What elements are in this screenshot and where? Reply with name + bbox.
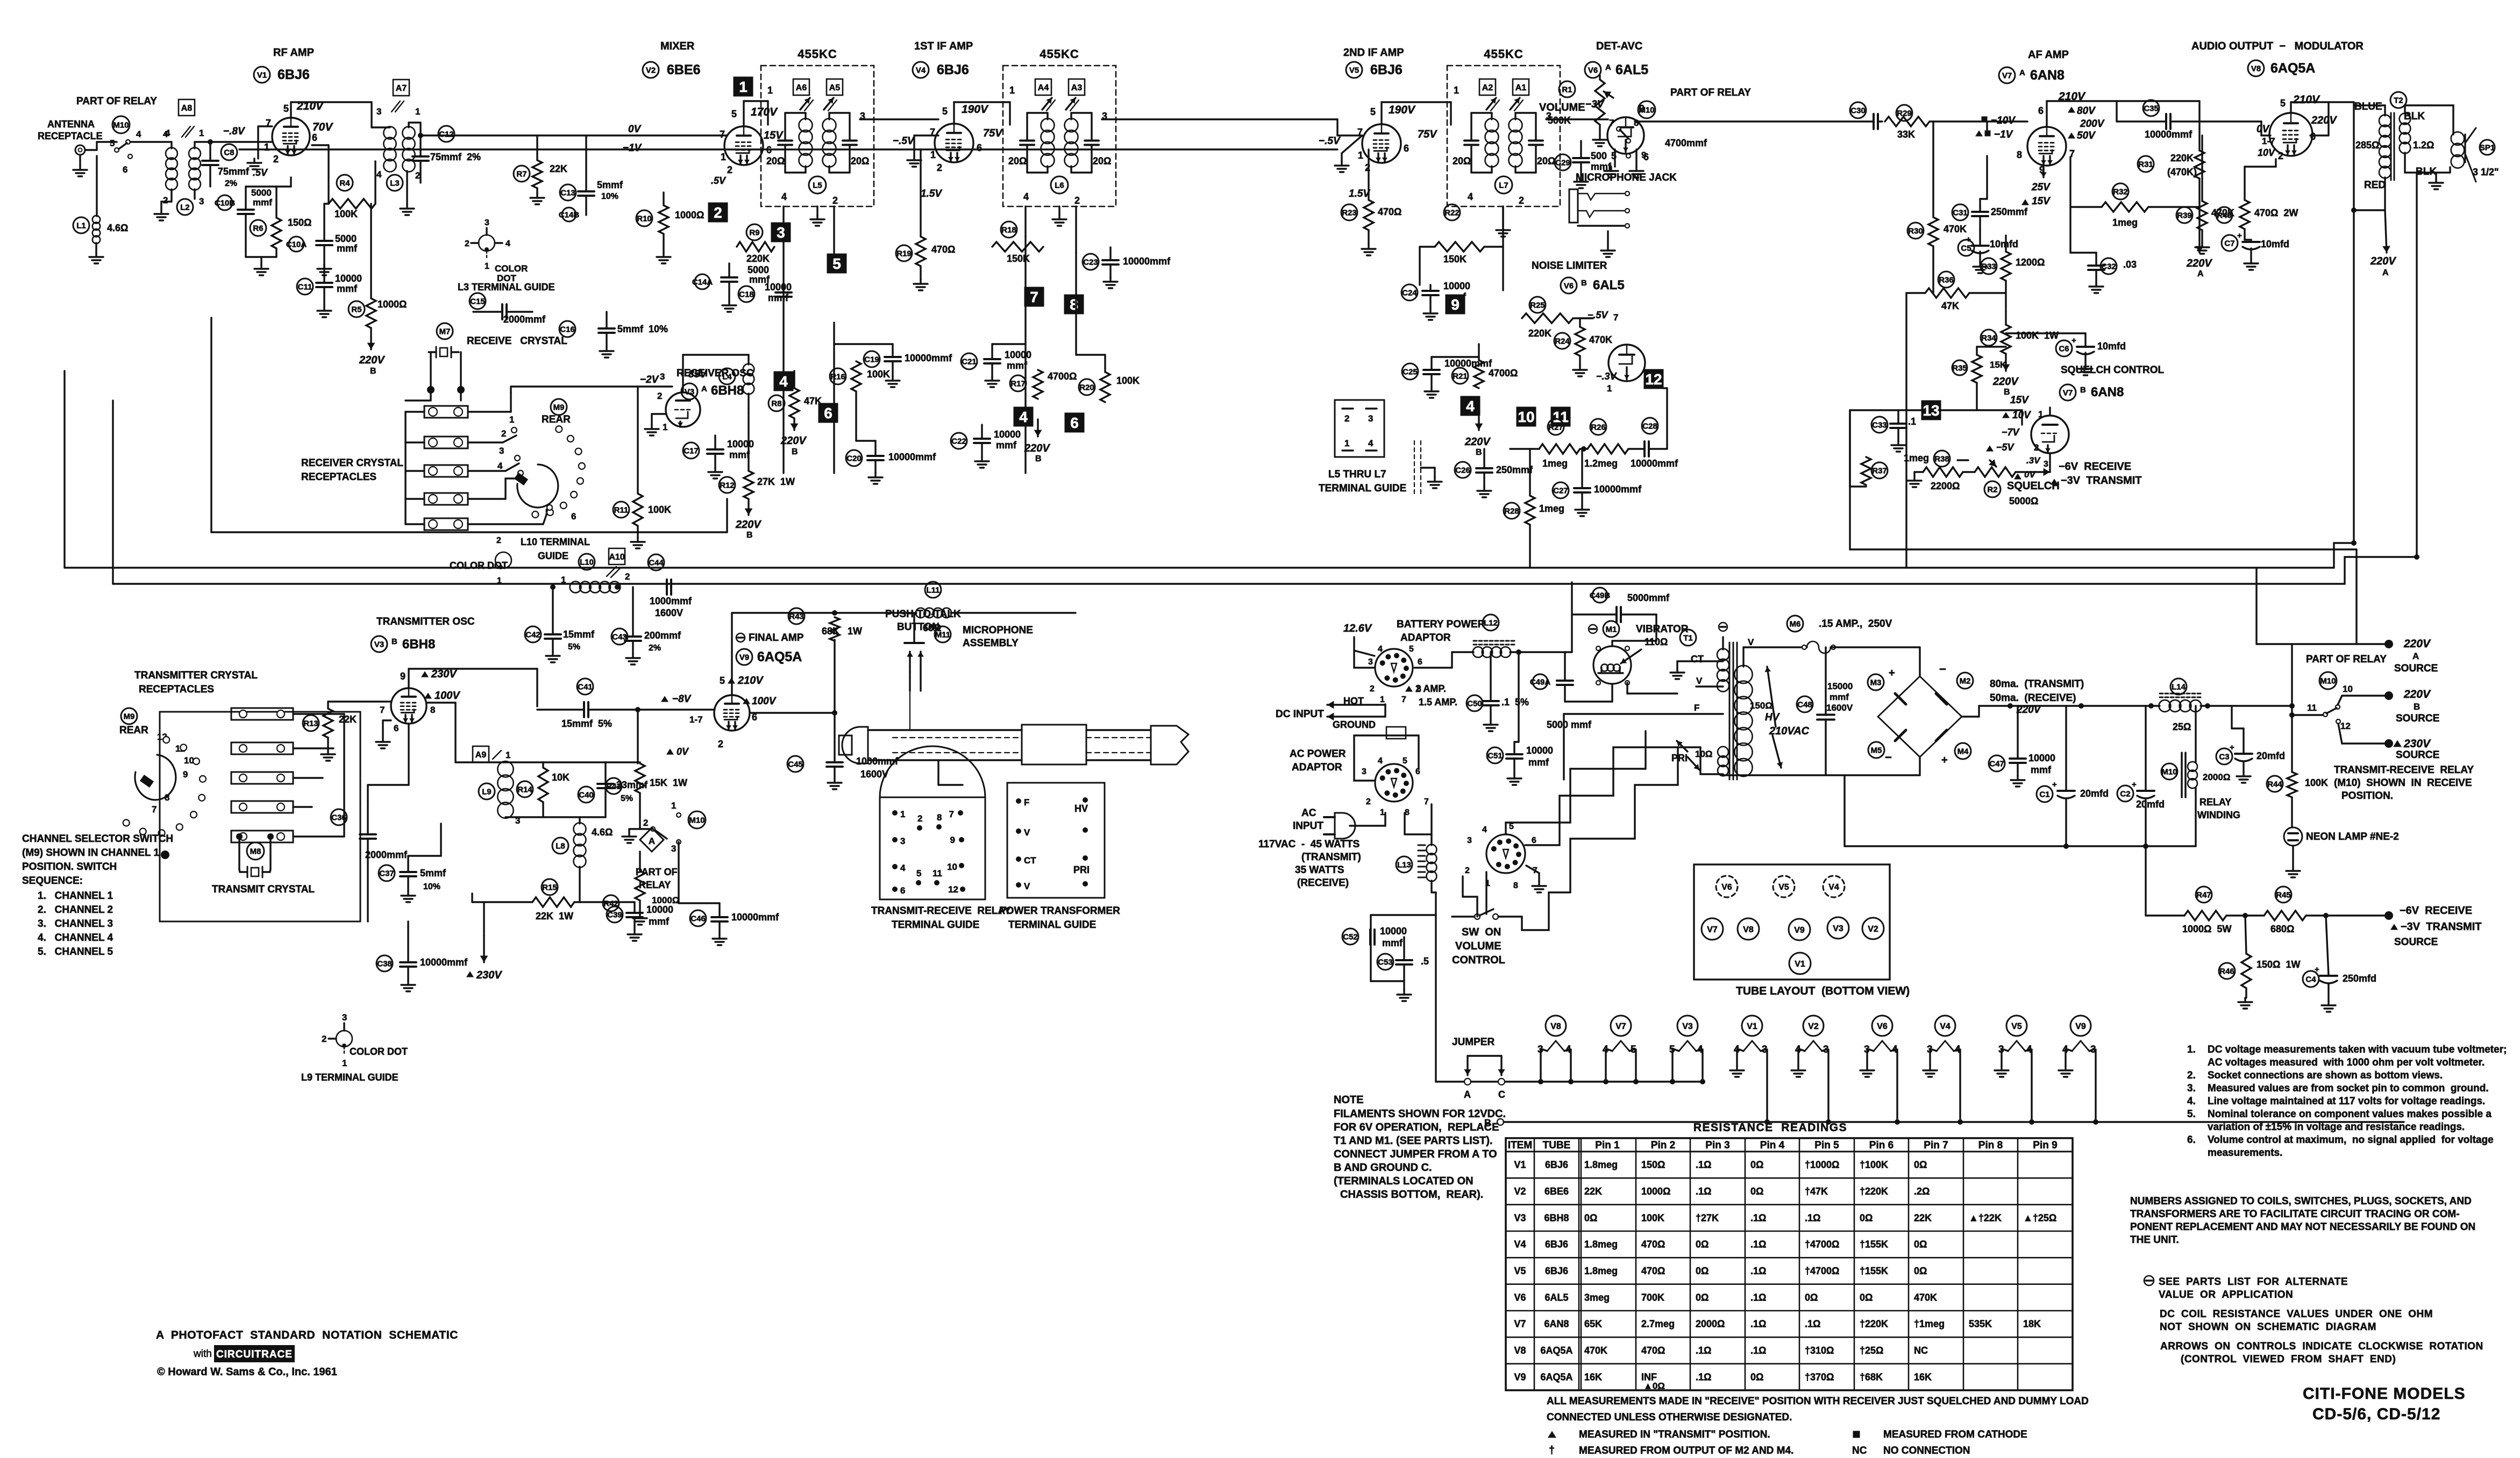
resistor R24 470K bbox=[1554, 333, 1570, 349]
svg-text:AC voltages measured with 100: AC voltages measured with 1000 ohm per v… bbox=[2208, 1057, 2485, 1068]
svg-text:+: + bbox=[2071, 336, 2076, 345]
svg-text:−5V: −5V bbox=[1996, 442, 2015, 453]
svg-text:B: B bbox=[746, 531, 753, 540]
ground IF3 bbox=[1502, 206, 1504, 226]
capacitor C37 5mmf bbox=[379, 865, 395, 881]
capacitor C2 20mfd bbox=[2117, 785, 2133, 802]
svg-text:PRI: PRI bbox=[1671, 753, 1688, 763]
resistor R47 1000 ohm 5W bbox=[2196, 887, 2212, 903]
svg-text:5: 5 bbox=[942, 106, 948, 117]
svg-text:3: 3 bbox=[199, 196, 204, 206]
svg-text:6: 6 bbox=[900, 885, 905, 896]
capacitor C19 10000mmf bbox=[864, 351, 880, 367]
svg-text:ASSEMBLY: ASSEMBLY bbox=[963, 638, 1019, 649]
svg-text:470K: 470K bbox=[1589, 334, 1612, 345]
svg-text:6BJ6: 6BJ6 bbox=[1370, 62, 1403, 77]
tube V6B noise limiter bbox=[1608, 345, 1645, 381]
svg-text:CIRCUITRACE: CIRCUITRACE bbox=[216, 1349, 293, 1360]
svg-text:4: 4 bbox=[1023, 191, 1029, 202]
svg-text:TRANSMIT-RECEIVE RELAY: TRANSMIT-RECEIVE RELAY bbox=[2334, 764, 2474, 776]
svg-text:1.5V: 1.5V bbox=[921, 188, 942, 199]
svg-text:3: 3 bbox=[1368, 657, 1373, 667]
svg-text:1: 1 bbox=[663, 422, 667, 432]
svg-text:1: 1 bbox=[1454, 85, 1459, 96]
ground bbox=[981, 457, 983, 461]
svg-text:R36: R36 bbox=[1939, 275, 1954, 284]
svg-text:1: 1 bbox=[739, 78, 748, 95]
svg-text:C: C bbox=[1498, 1089, 1505, 1100]
svg-text:V3: V3 bbox=[1514, 1212, 1526, 1223]
svg-text:18K: 18K bbox=[2023, 1319, 2041, 1330]
svg-text:RESISTANCE READINGS: RESISTANCE READINGS bbox=[1693, 1121, 1847, 1134]
svg-text:SOURCE: SOURCE bbox=[2394, 663, 2438, 674]
svg-text:C15: C15 bbox=[470, 297, 485, 306]
svg-text:mmf: mmf bbox=[1382, 938, 1403, 948]
svg-text:C3: C3 bbox=[2219, 752, 2229, 761]
ground bbox=[536, 188, 538, 194]
svg-text:SOURCE: SOURCE bbox=[2394, 937, 2438, 948]
wire plate V9 bbox=[731, 613, 732, 695]
svg-text:10: 10 bbox=[947, 862, 957, 872]
svg-text:3: 3 bbox=[485, 218, 489, 227]
wire T1 top bbox=[1722, 637, 1724, 649]
svg-text:470Ω: 470Ω bbox=[1378, 206, 1401, 217]
svg-text:10000: 10000 bbox=[1380, 926, 1407, 937]
svg-text:500K: 500K bbox=[1548, 115, 1571, 126]
svg-text:3: 3 bbox=[1362, 767, 1366, 776]
capacitor C4 250mfd bbox=[2303, 971, 2319, 987]
svg-text:5: 5 bbox=[720, 675, 725, 686]
svg-text:L9 TERMINAL GUIDE: L9 TERMINAL GUIDE bbox=[301, 1072, 398, 1083]
capacitor C15 2000mmf bbox=[469, 293, 486, 309]
svg-text:6.: 6. bbox=[2187, 1134, 2196, 1146]
svg-text:Pin 1: Pin 1 bbox=[1595, 1140, 1620, 1151]
svg-text:10000: 10000 bbox=[1005, 349, 1031, 360]
svg-text:5: 5 bbox=[1409, 645, 1414, 654]
svg-text:R31: R31 bbox=[2138, 160, 2153, 169]
svg-text:ARROWS ON CONTROLS INDICATE: ARROWS ON CONTROLS INDICATE CLOCKWISE RO… bbox=[2160, 1341, 2483, 1352]
svg-text:R32: R32 bbox=[2113, 187, 2128, 196]
ground bbox=[2292, 867, 2294, 871]
svg-text:10000mmf: 10000mmf bbox=[905, 353, 952, 363]
svg-text:TRANSFORMERS ARE TO FACILITATE: TRANSFORMERS ARE TO FACILITATE CIRCUIT T… bbox=[2130, 1209, 2460, 1220]
svg-text:TERMINAL GUIDE: TERMINAL GUIDE bbox=[1319, 483, 1406, 494]
svg-text:2000Ω: 2000Ω bbox=[2203, 772, 2230, 782]
svg-text:80V: 80V bbox=[2077, 105, 2096, 117]
svg-text:3: 3 bbox=[515, 816, 520, 826]
ground bbox=[1368, 230, 1369, 245]
svg-text:MEASURED FROM OUTPUT OF M2 AND: MEASURED FROM OUTPUT OF M2 AND M4. bbox=[1579, 1445, 1793, 1456]
svg-text:R8: R8 bbox=[771, 399, 781, 408]
svg-text:100V: 100V bbox=[752, 696, 777, 707]
svg-text:L1: L1 bbox=[76, 221, 86, 230]
svg-text:A4: A4 bbox=[1038, 83, 1049, 92]
ground bbox=[991, 376, 993, 381]
ground bbox=[327, 738, 329, 750]
ground bbox=[79, 156, 81, 166]
svg-text:4.6Ω: 4.6Ω bbox=[107, 223, 128, 233]
svg-text:V6: V6 bbox=[1588, 66, 1598, 75]
svg-text:6BJ6: 6BJ6 bbox=[1545, 1266, 1568, 1276]
svg-text:6: 6 bbox=[1070, 414, 1079, 431]
svg-text:COLOR DOT: COLOR DOT bbox=[350, 1046, 408, 1057]
svg-text:8: 8 bbox=[1513, 881, 1518, 890]
svg-text:A6: A6 bbox=[796, 83, 807, 92]
ground bbox=[1607, 231, 1608, 246]
svg-text:9: 9 bbox=[183, 769, 188, 780]
capacitor C10B 5000mmf bbox=[217, 195, 232, 210]
long vertical right 1 bbox=[2353, 102, 2354, 543]
svg-text:SOURCE: SOURCE bbox=[2396, 749, 2439, 761]
capacitor C16 5mmf bbox=[559, 321, 575, 337]
ground bbox=[920, 266, 921, 280]
svg-text:WINDING: WINDING bbox=[2197, 810, 2240, 820]
svg-text:1: 1 bbox=[1607, 383, 1612, 394]
svg-text:SEE PARTS LIST FOR ALTERNA: SEE PARTS LIST FOR ALTERNATE bbox=[2159, 1276, 2348, 1288]
svg-text:R24: R24 bbox=[1555, 337, 1570, 346]
svg-text:variation of ±15% in voltage a: variation of ±15% in voltage and resista… bbox=[2208, 1121, 2465, 1133]
resistor R20 100K bbox=[1079, 379, 1095, 395]
svg-text:A7: A7 bbox=[396, 84, 407, 93]
svg-text:†25Ω: †25Ω bbox=[1860, 1345, 1883, 1356]
squelch pot R2 5000 ohm bbox=[1984, 481, 2001, 497]
svg-text:ADAPTOR: ADAPTOR bbox=[1400, 632, 1451, 644]
capacitor C18 10000mmf bbox=[738, 286, 754, 302]
svg-text:Measured values are from socke: Measured values are from socket pin to c… bbox=[2208, 1083, 2489, 1094]
svg-text:20mfd: 20mfd bbox=[2136, 799, 2165, 810]
wire IF2 out long line to V5 bbox=[1102, 118, 1337, 120]
svg-text:0Ω: 0Ω bbox=[1696, 1292, 1709, 1303]
svg-text:75mmf 2%: 75mmf 2% bbox=[430, 152, 481, 162]
svg-text:220V: 220V bbox=[359, 354, 385, 366]
svg-text:R25: R25 bbox=[1530, 301, 1545, 310]
svg-text:25Ω: 25Ω bbox=[2173, 721, 2191, 732]
svg-text:7: 7 bbox=[152, 804, 156, 814]
svg-text:1meg: 1meg bbox=[1539, 503, 1564, 514]
svg-text:6AL5: 6AL5 bbox=[1593, 278, 1625, 292]
svg-text:B: B bbox=[2004, 388, 2010, 397]
svg-text:200mmf: 200mmf bbox=[644, 630, 681, 641]
capacitor C51 10000 mmf bbox=[1487, 747, 1503, 763]
capacitor C5 10mfd bbox=[1958, 240, 1974, 256]
svg-text:3: 3 bbox=[777, 224, 785, 241]
resistor R45 680 ohm bbox=[2275, 887, 2291, 903]
svg-text:5%: 5% bbox=[621, 794, 633, 803]
capacitor C21 10000 mmf bbox=[961, 353, 977, 369]
svg-text:1: 1 bbox=[930, 149, 936, 160]
svg-text:CHANNEL SELECTOR SWITCH: CHANNEL SELECTOR SWITCH bbox=[22, 833, 173, 845]
capacitor C53 .5 bbox=[1377, 954, 1393, 970]
svg-text:(470K): (470K) bbox=[2167, 167, 2197, 177]
wire bbox=[85, 149, 97, 151]
svg-text:R12: R12 bbox=[720, 481, 735, 490]
svg-text:2: 2 bbox=[496, 536, 501, 545]
svg-text:230V: 230V bbox=[476, 969, 502, 981]
svg-text:R15: R15 bbox=[542, 883, 557, 892]
svg-text:RECEPTACLE: RECEPTACLE bbox=[38, 131, 103, 141]
svg-text:1: 1 bbox=[1344, 438, 1349, 448]
svg-text:V5: V5 bbox=[1349, 66, 1359, 75]
svg-text:20Ω: 20Ω bbox=[1093, 156, 1111, 167]
svg-text:V5: V5 bbox=[2011, 1022, 2022, 1031]
svg-text:.1Ω: .1Ω bbox=[1750, 1292, 1766, 1303]
svg-text:MEASURED IN "TRANSMIT" POSITIO: MEASURED IN "TRANSMIT" POSITION. bbox=[1579, 1429, 1770, 1440]
svg-text:65K: 65K bbox=[1584, 1319, 1602, 1330]
svg-text:R23: R23 bbox=[1342, 208, 1357, 217]
svg-text:6: 6 bbox=[824, 405, 832, 421]
wire volume to AF amp bbox=[1635, 120, 1873, 122]
svg-text:1: 1 bbox=[1358, 150, 1363, 161]
svg-text:4700mmf: 4700mmf bbox=[1665, 138, 1707, 148]
svg-text:†100K: †100K bbox=[1860, 1160, 1888, 1170]
resistor R30 470K bbox=[1907, 223, 1924, 239]
svg-text:C1: C1 bbox=[2039, 790, 2049, 799]
svg-text:CD-5/6, CD-5/12: CD-5/6, CD-5/12 bbox=[2312, 1405, 2440, 1423]
svg-text:13: 13 bbox=[1923, 402, 1939, 419]
svg-text:20mfd: 20mfd bbox=[2256, 751, 2285, 761]
resistor R4 100K bbox=[337, 175, 353, 191]
svg-text:1: 1 bbox=[767, 85, 773, 96]
vibrator M1 bbox=[1589, 625, 1597, 633]
svg-text:1meg: 1meg bbox=[1904, 453, 1929, 463]
svg-text:V6: V6 bbox=[1514, 1292, 1526, 1303]
tube V3A 6BH8 triode half bbox=[666, 392, 700, 427]
svg-text:+: + bbox=[2230, 743, 2234, 752]
capacitor C20 10000mmf bbox=[846, 450, 862, 466]
svg-text:A10: A10 bbox=[609, 553, 624, 562]
ground bbox=[1342, 135, 1362, 153]
ground bbox=[628, 832, 630, 837]
svg-text:10000: 10000 bbox=[994, 429, 1021, 440]
svg-text:22K 1W: 22K 1W bbox=[536, 911, 573, 921]
svg-text:R14: R14 bbox=[517, 785, 532, 794]
svg-text:C12: C12 bbox=[439, 130, 454, 139]
svg-text:R35: R35 bbox=[1952, 363, 1967, 373]
svg-text:TRANSMIT-RECEIVE RELAY: TRANSMIT-RECEIVE RELAY bbox=[871, 905, 1011, 917]
svg-text:10000mmf: 10000mmf bbox=[731, 912, 779, 923]
svg-text:R28: R28 bbox=[1504, 506, 1519, 516]
svg-text:L5 THRU L7: L5 THRU L7 bbox=[1328, 469, 1386, 480]
capacitor C25 10000mmf bbox=[1402, 363, 1418, 380]
svg-text:2200Ω: 2200Ω bbox=[1931, 481, 1960, 491]
svg-text:5000: 5000 bbox=[335, 233, 357, 244]
svg-text:C2: C2 bbox=[2120, 789, 2130, 798]
svg-text:▲†25Ω: ▲†25Ω bbox=[2023, 1212, 2056, 1223]
capacitor C42 15mmf bbox=[525, 626, 541, 642]
resistor R17 4700 ohm bbox=[1010, 375, 1026, 391]
volume control R1 500K bbox=[1559, 81, 1575, 97]
svg-text:C6: C6 bbox=[2059, 344, 2069, 353]
svg-text:4: 4 bbox=[1482, 825, 1487, 834]
filament V1 bbox=[1742, 1016, 1762, 1036]
svg-text:1: 1 bbox=[671, 801, 676, 811]
CircuiTrace 3 bbox=[771, 223, 791, 242]
fuse M6 bbox=[1787, 616, 1803, 632]
svg-text:R18: R18 bbox=[1001, 225, 1016, 234]
svg-text:220V: 220V bbox=[2403, 638, 2431, 650]
svg-text:2: 2 bbox=[465, 239, 469, 248]
svg-text:+: + bbox=[2237, 231, 2242, 240]
svg-text:2000mmf: 2000mmf bbox=[365, 849, 408, 860]
svg-text:4: 4 bbox=[1368, 438, 1373, 448]
wire screen V8 bbox=[2310, 134, 2329, 136]
svg-text:5. CHANNEL 5: 5. CHANNEL 5 bbox=[38, 946, 113, 957]
svg-text:2: 2 bbox=[1370, 684, 1375, 694]
svg-text:−1V: −1V bbox=[1994, 129, 2013, 140]
svg-text:15000: 15000 bbox=[1827, 681, 1853, 691]
svg-text:†: † bbox=[1549, 1445, 1555, 1456]
svg-text:Pin 2: Pin 2 bbox=[1651, 1140, 1675, 1151]
svg-text:1.8meg: 1.8meg bbox=[1584, 1266, 1618, 1276]
ground bbox=[874, 473, 876, 477]
svg-text:12: 12 bbox=[2340, 721, 2351, 731]
svg-text:6AQ5A: 6AQ5A bbox=[1540, 1345, 1572, 1356]
wire V3B plate 230V bbox=[408, 669, 409, 687]
resistor R32 1meg bbox=[2112, 183, 2129, 199]
svg-text:B: B bbox=[2080, 385, 2086, 395]
ground bbox=[406, 171, 408, 204]
diamond A bbox=[640, 828, 664, 852]
svg-text:10000: 10000 bbox=[2028, 753, 2055, 763]
svg-text:200V: 200V bbox=[2080, 118, 2105, 130]
CircuiTrace 4 bbox=[1014, 407, 1034, 427]
see parts list note bbox=[2144, 1276, 2154, 1285]
svg-text:4: 4 bbox=[1378, 645, 1383, 654]
svg-text:5: 5 bbox=[731, 109, 737, 119]
svg-text:3: 3 bbox=[660, 371, 665, 382]
capacitor C44 1000mmf 1600V bbox=[648, 554, 664, 570]
svg-text:(M9) SHOWN IN CHANNEL 1: (M9) SHOWN IN CHANNEL 1 bbox=[22, 847, 160, 859]
svg-text:220V: 220V bbox=[735, 519, 761, 531]
svg-text:455KC: 455KC bbox=[1484, 47, 1523, 61]
svg-text:M10: M10 bbox=[2320, 676, 2336, 685]
capacitor C48 15000mmf 1600V bbox=[1797, 696, 1813, 712]
svg-text:V5: V5 bbox=[1514, 1266, 1526, 1276]
svg-text:R26: R26 bbox=[1591, 423, 1606, 432]
svg-text:−: − bbox=[1939, 662, 1946, 676]
sw on volume control socket bbox=[1486, 834, 1525, 873]
svg-text:6BJ6: 6BJ6 bbox=[937, 62, 969, 77]
wire bbox=[726, 499, 728, 532]
svg-text:2ND IF AMP: 2ND IF AMP bbox=[1343, 47, 1404, 59]
svg-text:DC COIL RESISTANCE VALUES: DC COIL RESISTANCE VALUES UNDER ONE OHM bbox=[2160, 1309, 2433, 1320]
svg-text:4.6Ω: 4.6Ω bbox=[592, 827, 613, 838]
svg-text:9: 9 bbox=[1641, 150, 1646, 160]
svg-text:10mfd: 10mfd bbox=[2097, 341, 2126, 352]
svg-text:R33: R33 bbox=[1981, 262, 1996, 271]
wire plate V7A bbox=[2046, 101, 2047, 127]
capacitor C6 10mfd bbox=[2056, 340, 2072, 356]
CircuiTrace 12 bbox=[1644, 369, 1664, 389]
svg-text:250mfd: 250mfd bbox=[2343, 973, 2376, 984]
svg-text:L9: L9 bbox=[482, 787, 492, 796]
svg-text:REAR: REAR bbox=[119, 725, 148, 736]
svg-text:Pin 9: Pin 9 bbox=[2033, 1140, 2057, 1151]
svg-text:15V: 15V bbox=[2032, 196, 2051, 207]
resistor R10 1000 ohm bbox=[636, 210, 652, 226]
ground bbox=[95, 243, 97, 253]
svg-text:.1Ω: .1Ω bbox=[1750, 1345, 1766, 1356]
ground bbox=[2243, 772, 2244, 776]
svg-text:2%: 2% bbox=[225, 179, 237, 188]
svg-text:R30: R30 bbox=[1908, 226, 1923, 235]
capacitor C30 4700mmf bbox=[1850, 102, 1866, 118]
ground bbox=[2095, 282, 2097, 287]
filament V5 bbox=[2006, 1016, 2027, 1036]
svg-text:1000Ω: 1000Ω bbox=[378, 299, 407, 310]
svg-text:†1meg: †1meg bbox=[1914, 1319, 1945, 1330]
svg-text:VOLUME: VOLUME bbox=[1539, 102, 1585, 113]
svg-text:PONENT REPLACEMENT AND MAY NOT: PONENT REPLACEMENT AND MAY NOT NECESSARI… bbox=[2130, 1221, 2475, 1233]
svg-text:12: 12 bbox=[948, 884, 958, 895]
svg-text:DC INPUT: DC INPUT bbox=[1276, 709, 1324, 720]
svg-text:4: 4 bbox=[1378, 756, 1383, 766]
svg-text:M11: M11 bbox=[935, 630, 950, 639]
svg-text:M4: M4 bbox=[1957, 747, 1969, 756]
svg-text:4: 4 bbox=[1466, 398, 1475, 414]
svg-text:V4: V4 bbox=[916, 66, 926, 75]
svg-text:100K: 100K bbox=[2305, 777, 2328, 788]
svg-text:NC: NC bbox=[1852, 1445, 1867, 1456]
ground bbox=[1579, 356, 1581, 366]
svg-text:F: F bbox=[1694, 703, 1699, 713]
wire plate V5 to IF3 bbox=[1380, 102, 1382, 124]
svg-text:PRI: PRI bbox=[1073, 864, 1090, 875]
svg-text:470Ω: 470Ω bbox=[1641, 1266, 1665, 1276]
voltage 220V A arrow bbox=[2198, 207, 2200, 253]
svg-text:6: 6 bbox=[977, 142, 982, 153]
resistor R38 2200 ohm bbox=[1934, 451, 1950, 467]
resistor R22 150K bbox=[1444, 204, 1460, 220]
svg-text:M9: M9 bbox=[124, 712, 135, 721]
svg-text:2: 2 bbox=[2278, 151, 2283, 161]
ground bbox=[1429, 309, 1431, 313]
svg-text:−.5V: −.5V bbox=[1319, 135, 1341, 147]
receiver crystal M7 bbox=[437, 323, 453, 339]
svg-text:V8: V8 bbox=[1514, 1345, 1526, 1356]
switch SW on volume bbox=[1475, 914, 1480, 919]
svg-text:117VAC - 45 WATTS: 117VAC - 45 WATTS bbox=[1258, 839, 1359, 850]
svg-text:150Ω: 150Ω bbox=[1750, 701, 1772, 711]
svg-text:A: A bbox=[1605, 63, 1611, 72]
svg-text:−7V: −7V bbox=[2002, 427, 2020, 438]
svg-text:V: V bbox=[1696, 676, 1703, 686]
svg-text:V2: V2 bbox=[1808, 1022, 1819, 1031]
svg-text:170V: 170V bbox=[751, 106, 778, 118]
filament V8 bbox=[1546, 1016, 1566, 1036]
ground bbox=[1058, 206, 1060, 215]
svg-text:5000mmf: 5000mmf bbox=[1627, 592, 1670, 603]
CircuiTrace 4 bbox=[1461, 396, 1480, 416]
svg-text:5mmf 10%: 5mmf 10% bbox=[617, 324, 668, 334]
svg-text:TRANSMITTER OSC: TRANSMITTER OSC bbox=[376, 616, 475, 627]
svg-text:1.5 AMP.: 1.5 AMP. bbox=[1419, 697, 1457, 707]
svg-text:+: + bbox=[2132, 780, 2137, 789]
svg-text:6: 6 bbox=[2310, 131, 2316, 142]
wire plate V2 to IF1 bbox=[743, 101, 744, 126]
svg-text:9: 9 bbox=[1451, 296, 1460, 313]
svg-text:10000mmf: 10000mmf bbox=[420, 957, 468, 968]
svg-text:C35: C35 bbox=[2144, 104, 2159, 113]
final amp label bbox=[736, 633, 745, 642]
svg-text:100K: 100K bbox=[1116, 375, 1140, 386]
wire grid bbox=[2260, 121, 2262, 135]
svg-text:R13: R13 bbox=[303, 719, 318, 728]
svg-text:DOT: DOT bbox=[497, 273, 517, 283]
svg-text:0Ω: 0Ω bbox=[1860, 1292, 1873, 1303]
svg-text:7: 7 bbox=[1401, 695, 1406, 704]
voltage 220V B bbox=[2005, 354, 2006, 371]
